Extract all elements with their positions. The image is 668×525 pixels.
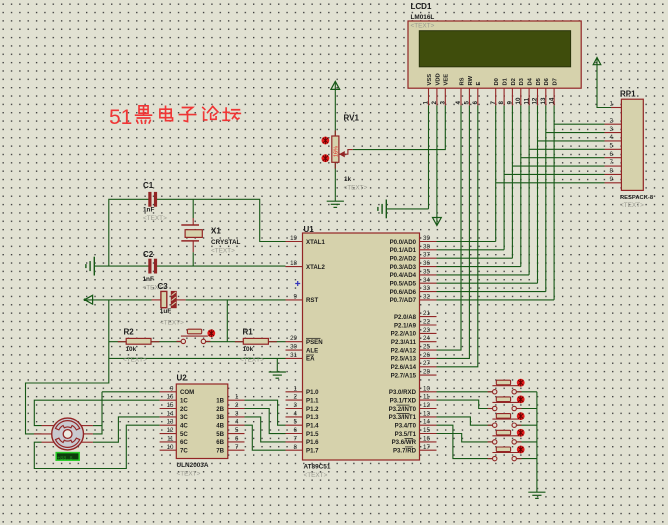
U1 left pin stubs [286,242,303,451]
crystal X1 body [185,230,202,238]
button 5 right stub [517,458,522,460]
svg-text:1: 1 [294,385,298,392]
svg-text:14: 14 [167,410,174,417]
wire D4 to P0.4 [437,274,530,276]
svg-text:22: 22 [423,319,430,326]
svg-text:<TEXT>: <TEXT> [123,357,147,364]
svg-text:6: 6 [472,101,479,105]
wire R1 to PSEN [268,341,285,343]
wire D1 to RP1 pin 8 [504,173,604,175]
wire D2 to RP1 pin 7 [512,165,604,167]
svg-text:2: 2 [294,394,298,401]
svg-text:8: 8 [610,168,614,175]
RV1 down adjust dot [322,154,330,162]
svg-text:3: 3 [610,126,614,133]
svg-text:P0.7/AD7: P0.7/AD7 [390,297,417,304]
button 1 dot [517,379,525,387]
microcontroller U1 body [303,233,420,460]
svg-text:<TEXT>: <TEXT> [177,471,201,478]
wire 4C loop to motor L3 [34,425,159,468]
RP1 pins [605,108,622,183]
U1 right pin stubs [420,242,437,451]
svg-text:D3: D3 [519,77,525,85]
button 2 left stub [488,408,493,410]
svg-text:19: 19 [290,235,297,242]
arrow (RST net, pointing left) [85,295,93,304]
svg-text:P2.5/A13: P2.5/A13 [391,356,417,363]
wire U2 1B to U1 P1.4 [245,400,286,425]
svg-text:P2.0/A8: P2.0/A8 [394,314,417,321]
svg-text:PSEN: PSEN [306,339,323,346]
wire D0 to RP1 pin 9 [496,182,605,184]
svg-text:R2: R2 [124,328,135,337]
button 4 right stub [517,441,522,443]
svg-text:7: 7 [490,101,497,105]
svg-text:31: 31 [290,352,297,359]
wire D3 to P0.3 [437,266,521,268]
wire D1 to P0.1 [437,249,505,251]
wire trunk to R2 [109,341,126,343]
capacitor C1 [148,192,157,207]
LCD pins [429,88,555,105]
svg-text:35: 35 [423,268,430,275]
hanzi lun [203,106,218,120]
wire D3 column [520,105,522,266]
svg-text:P1.7: P1.7 [306,448,319,455]
svg-text:25: 25 [423,344,430,351]
resistor pack RP1 body [621,99,643,190]
reset button right stub [206,340,211,342]
svg-text:1: 1 [610,101,614,108]
svg-text:P2.7/A15: P2.7/A15 [391,372,417,379]
svg-text:15: 15 [423,427,430,434]
wire RS to P2.4 [437,105,462,350]
svg-text:RS: RS [459,77,465,85]
svg-text:D6: D6 [544,77,550,85]
wire C3 to RST pin [186,299,286,301]
svg-text:4: 4 [294,410,298,417]
svg-text:4C: 4C [180,423,188,430]
wire power to RV1 top [334,92,336,136]
svg-text:U2: U2 [177,374,188,383]
svg-text:<TEXT>: <TEXT> [211,248,235,255]
svg-text:33: 33 [423,285,430,292]
power arrow (RP1) [596,58,598,67]
wire D0 to P0.0 [437,241,496,243]
svg-text:P3.5/T1: P3.5/T1 [395,431,417,438]
svg-text:13: 13 [167,419,174,426]
svg-text:2B: 2B [216,406,224,413]
wire motor R1 to COM riser [93,425,102,427]
wire crystal bottom [192,252,194,266]
wire COM down to motor R2 [93,392,102,434]
ground (buttons) [528,492,545,498]
svg-text:14: 14 [423,419,430,426]
wire D5 to RP1 pin 4 [538,140,605,142]
C3 right lead [176,299,185,301]
wire 3C to motor R3 [93,417,160,442]
button 3 left stub [488,424,493,426]
svg-text:RESPACK-8: RESPACK-8 [620,195,654,201]
svg-text:P0.6/AD6: P0.6/AD6 [390,289,417,296]
wire VSS to ground [386,208,428,210]
driver U2 body [176,384,228,459]
wire VSS down [428,105,430,208]
svg-text:23: 23 [423,327,430,334]
wire D1 column [503,105,505,249]
wire RW to P2.5 [437,105,470,358]
svg-text:P3.1/TXD: P3.1/TXD [390,397,417,404]
svg-text:24: 24 [423,335,430,342]
svg-text:6: 6 [235,435,239,442]
svg-text:5: 5 [610,143,614,150]
svg-text:6C: 6C [180,439,188,446]
wire button3 to common [517,424,537,426]
svg-text:4B: 4B [216,423,224,430]
svg-text:P3.3/INT1: P3.3/INT1 [389,414,417,421]
svg-text:10: 10 [167,444,174,451]
svg-text:27: 27 [423,360,430,367]
svg-text:C3: C3 [158,282,169,291]
push button 3 [492,414,519,428]
svg-text:RP1: RP1 [620,90,636,99]
wire R2 to button [151,341,181,343]
wire C2 right to XTAL2 [157,265,286,267]
RV1 wiper arrowhead [339,151,345,157]
svg-text:6: 6 [294,427,298,434]
svg-text:51: 51 [109,106,132,129]
wire button4 to common [517,441,537,443]
svg-text:P0.2/AD2: P0.2/AD2 [390,256,417,263]
svg-text:P0.0/AD0: P0.0/AD0 [390,239,417,246]
svg-text:P3.6/WR: P3.6/WR [392,439,417,446]
svg-text:P1.2: P1.2 [306,406,319,413]
svg-text:P2.4/A12: P2.4/A12 [391,347,417,354]
wire power to RP1 pin1 [597,67,611,108]
svg-text:9: 9 [294,293,298,300]
motor stubs [34,426,93,443]
button 3 right stub [517,424,522,426]
svg-text:ULN2003A: ULN2003A [177,462,209,469]
wire button2 to common [517,408,537,410]
svg-text:3: 3 [235,410,239,417]
button 3 dot [517,412,525,420]
svg-text:7C: 7C [180,448,188,455]
svg-text:P3.2/INT0: P3.2/INT0 [389,406,417,413]
wire D6 column [545,105,547,291]
svg-text:14: 14 [548,97,555,104]
svg-text:12: 12 [167,427,174,434]
svg-text:U1: U1 [304,225,315,234]
wire P3.1 to button2 [437,400,493,408]
wire D7 column [553,105,555,300]
svg-text:+88.8: +88.8 [57,455,73,461]
svg-text:39: 39 [423,235,430,242]
svg-text:1nF: 1nF [143,207,154,214]
svg-text:LM016L: LM016L [411,14,435,21]
reset button left stub [177,340,181,342]
svg-text:C1: C1 [143,181,154,190]
svg-text:VSS: VSS [427,74,433,86]
svg-text:P1.6: P1.6 [306,439,319,446]
svg-text:P2.1/A9: P2.1/A9 [394,322,417,329]
wire D7 to RP1 pin 2 [554,123,604,125]
capacitor C2 [148,259,157,274]
wire 1C to motor L1 [34,400,159,425]
potentiometer RV1 body [332,136,339,162]
svg-text:R1: R1 [243,328,254,337]
svg-text:7: 7 [235,444,239,451]
wire D4 to RP1 pin 5 [529,148,604,150]
svg-text:15: 15 [167,402,174,409]
svg-text:4: 4 [235,419,239,426]
svg-text:12: 12 [423,402,430,409]
wire U2 2B to U1 P1.5 [245,409,286,434]
svg-text:17: 17 [423,444,430,451]
svg-text:P1.4: P1.4 [306,423,319,430]
svg-text:9: 9 [507,101,514,105]
button 5 left stub [488,458,493,460]
svg-text:5C: 5C [180,431,188,438]
svg-text:3C: 3C [180,414,188,421]
wire D3 to RP1 pin 6 [521,157,605,159]
wire RV1 bottom [334,162,336,197]
svg-text:30: 30 [290,344,297,351]
svg-text:RST: RST [306,297,318,304]
svg-text:4: 4 [610,134,614,141]
power arrow down (VDD) [436,217,438,226]
svg-text:2C: 2C [180,406,188,413]
U2 right pin stubs [228,400,245,450]
motor M1 [52,418,84,450]
svg-text:P0.5/AD5: P0.5/AD5 [390,281,417,288]
svg-text:P2.3/A11: P2.3/A11 [391,339,417,346]
svg-text:32: 32 [423,293,430,300]
svg-text:<TEXT>: <TEXT> [160,320,184,327]
wire D6 to RP1 pin 3 [546,132,605,134]
button 2 right stub [517,408,522,410]
R1 right lead [268,341,276,343]
svg-text:7: 7 [294,435,298,442]
svg-text:<TEXT>: <TEXT> [240,357,264,364]
crystal top lead [192,218,194,225]
push button 2 [492,397,519,411]
svg-text:37: 37 [423,252,430,259]
svg-text:3: 3 [440,101,447,105]
wire VDD down [436,105,438,217]
wire D4 column [528,105,530,275]
push button (reset) [181,329,208,343]
svg-text:5: 5 [235,427,239,434]
svg-text:2: 2 [431,101,438,105]
wire button5 to common [517,458,537,460]
svg-text:3B: 3B [216,414,224,421]
ground (C2) [86,257,94,276]
wire button common down [536,392,538,492]
button 5 dot [517,446,525,454]
svg-text:VDD: VDD [435,73,441,85]
svg-text:D1: D1 [502,77,508,85]
svg-text:9: 9 [610,176,614,183]
svg-text:COM: COM [180,389,194,396]
RV1 top stub [334,131,336,137]
svg-text:11: 11 [423,394,430,401]
wire button to R1 [205,341,243,343]
wire U2 4B to U1 P1.7 [245,425,286,450]
RV1 bottom stub [334,162,336,168]
wire C1 right to XTAL1 [157,199,286,241]
wire RST left to C3 [85,299,152,301]
wire P3.4 to button5 [437,425,493,458]
R1 left lead [235,341,243,343]
svg-text:VEE: VEE [444,74,450,86]
svg-text:P0.4/AD4: P0.4/AD4 [390,272,417,279]
hanzi hei [136,106,152,123]
svg-text:10: 10 [423,385,430,392]
R2 right lead [151,341,159,343]
svg-text:16: 16 [167,394,174,401]
wire D6 to P0.6 [437,291,546,293]
hanzi dian [160,106,173,120]
resistor R1 body [243,338,268,344]
svg-text:P2.6/A14: P2.6/A14 [391,364,417,371]
svg-text:XTAL1: XTAL1 [306,239,325,246]
svg-text:10: 10 [515,97,522,104]
svg-text:5: 5 [464,101,471,105]
svg-text:X1: X1 [211,227,221,236]
ground (RV1) [327,201,344,207]
wire RST to R1 node [226,300,228,342]
wire P3.0 to button1 [437,391,493,393]
resistor R2 body [126,338,151,344]
svg-text:E: E [476,82,482,86]
svg-text:36: 36 [423,260,430,267]
svg-text:<TEXT>: <TEXT> [143,215,167,222]
button 1 right stub [517,391,522,393]
hanzi tan [223,108,240,120]
svg-text:D7: D7 [553,78,559,85]
push button 5 [492,447,519,461]
svg-text:P1.3: P1.3 [306,414,319,421]
wire D2 to P0.2 [437,257,513,259]
svg-text:29: 29 [290,335,297,342]
ground (EA) [269,372,286,378]
R2 left lead [118,341,126,343]
motor speed display [56,453,79,461]
svg-text:P3.7/RD: P3.7/RD [393,448,417,455]
capacitor C3 [161,291,167,307]
svg-text:RW: RW [468,75,474,85]
power arrow (RV1) [334,81,336,92]
ground (VSS) [378,200,386,219]
svg-text:18: 18 [290,260,297,267]
svg-text:26: 26 [423,352,430,359]
wire EA row to ground [276,358,278,372]
svg-text:9: 9 [170,385,174,392]
wire D0 column [495,105,497,241]
svg-text:11: 11 [523,97,530,104]
svg-text:P2.2/A10: P2.2/A10 [391,331,417,338]
svg-text:1k: 1k [344,176,352,183]
button 4 left stub [488,441,493,443]
svg-text:P3.4/T0: P3.4/T0 [395,423,417,430]
svg-text:5B: 5B [216,431,224,438]
wire P3.3 to button3 [437,417,493,425]
svg-text:RV1: RV1 [344,113,360,122]
wire COM left [102,391,160,393]
svg-text:<TEXT>: <TEXT> [304,472,328,479]
wire RST row down to motor L2 [26,300,109,434]
wire crystal top [192,199,194,218]
svg-text:P1.1: P1.1 [306,397,319,404]
svg-text:10k: 10k [243,346,254,353]
svg-text:1: 1 [235,394,239,401]
svg-text:P0.3/AD3: P0.3/AD3 [390,264,417,271]
svg-text:6: 6 [610,151,614,158]
wire ground to C2 [94,265,148,267]
svg-text:D2: D2 [511,78,517,85]
svg-text:<TEXT>: <TEXT> [411,23,435,30]
hanzi zi [179,107,195,121]
svg-text:1C: 1C [180,398,188,405]
svg-text:5: 5 [294,419,298,426]
svg-text:1uF: 1uF [160,308,171,315]
wire VEE to RV1 wiper [353,105,446,149]
svg-text:P1.5: P1.5 [306,431,319,438]
svg-text:1nF: 1nF [143,276,154,283]
reset button dot [207,329,215,337]
svg-text:CRYSTAL: CRYSTAL [211,239,241,246]
LCD LCD1 body [408,21,581,88]
svg-text:4: 4 [455,101,462,105]
push button 4 [492,430,519,444]
svg-text:13: 13 [540,97,547,104]
svg-text:<TEXT>: <TEXT> [344,185,368,192]
svg-text:21: 21 [423,310,430,317]
svg-text:8: 8 [294,444,298,451]
RV1 up adjust dot [322,137,330,145]
wire D5 column [537,105,539,283]
wire trunk to EA [109,357,286,359]
wire D5 to P0.5 [437,282,538,284]
svg-text:D4: D4 [528,77,534,85]
svg-text:2: 2 [610,117,614,124]
svg-text:ALE: ALE [306,347,318,354]
wire [334,197,336,201]
svg-text:16%: 16% [334,146,340,157]
svg-text:D5: D5 [536,77,542,85]
svg-text:3: 3 [294,402,298,409]
svg-text:1B: 1B [216,398,224,405]
U2 left pin stubs [160,392,177,450]
svg-text:XTAL2: XTAL2 [306,264,325,271]
svg-text:12: 12 [532,97,539,104]
svg-text:AT89C51: AT89C51 [304,464,331,471]
svg-text:16: 16 [423,435,430,442]
crystal X1 [181,224,199,226]
RV1 wiper lead [339,150,353,155]
wire D7 to P0.7 [437,299,555,301]
LCD screen [419,31,570,67]
svg-text:LCD1: LCD1 [411,2,432,11]
wire button1 to common [517,391,537,393]
svg-text:EA: EA [306,356,315,363]
svg-text:2: 2 [235,402,239,409]
svg-text:11: 11 [167,435,174,442]
svg-text:7B: 7B [216,448,224,455]
svg-text:8: 8 [498,101,505,105]
svg-text:6B: 6B [216,439,224,446]
